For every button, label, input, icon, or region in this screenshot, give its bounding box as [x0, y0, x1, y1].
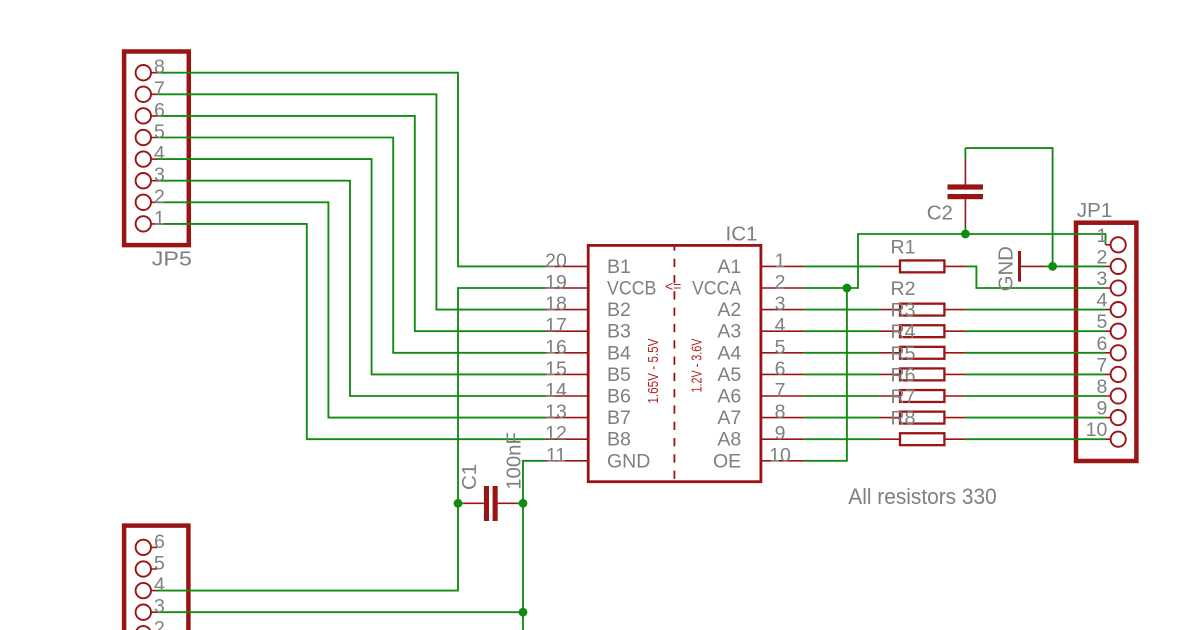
svg-text:100nF: 100nF — [503, 432, 526, 490]
svg-text:13: 13 — [545, 401, 567, 423]
svg-text:R6: R6 — [891, 364, 916, 386]
svg-text:1: 1 — [1096, 225, 1107, 247]
svg-text:16: 16 — [545, 336, 567, 358]
svg-text:A1: A1 — [717, 256, 741, 278]
svg-text:7: 7 — [154, 78, 165, 100]
svg-text:R5: R5 — [891, 343, 916, 365]
svg-text:A8: A8 — [717, 429, 741, 451]
svg-text:12: 12 — [545, 423, 567, 445]
svg-text:4: 4 — [154, 143, 165, 165]
svg-text:3: 3 — [154, 164, 165, 186]
svg-text:A4: A4 — [717, 342, 741, 364]
svg-text:A6: A6 — [717, 386, 741, 408]
svg-text:C2: C2 — [927, 202, 953, 225]
svg-text:<=: <= — [665, 278, 681, 294]
svg-text:18: 18 — [545, 293, 567, 315]
svg-text:5: 5 — [775, 336, 786, 358]
svg-text:6: 6 — [775, 358, 786, 380]
svg-text:A7: A7 — [717, 407, 741, 429]
svg-text:OE: OE — [713, 450, 741, 472]
svg-text:B6: B6 — [607, 386, 631, 408]
svg-text:8: 8 — [1096, 376, 1107, 398]
svg-text:GND: GND — [994, 246, 1017, 291]
svg-text:10: 10 — [769, 444, 791, 466]
svg-text:17: 17 — [545, 315, 567, 337]
svg-text:All resistors 330: All resistors 330 — [848, 484, 996, 509]
svg-text:3: 3 — [154, 596, 165, 618]
svg-text:3: 3 — [775, 293, 786, 315]
svg-text:B8: B8 — [607, 429, 631, 451]
svg-text:2: 2 — [154, 617, 165, 630]
svg-text:VCCA: VCCA — [692, 278, 741, 300]
svg-text:4: 4 — [154, 574, 165, 596]
svg-text:VCCB: VCCB — [607, 278, 656, 300]
svg-text:15: 15 — [545, 358, 567, 380]
svg-text:9: 9 — [775, 423, 786, 445]
svg-text:2: 2 — [775, 272, 786, 294]
svg-text:7: 7 — [775, 380, 786, 402]
svg-text:7: 7 — [1096, 354, 1107, 376]
svg-text:5: 5 — [154, 121, 165, 143]
svg-text:JP1: JP1 — [1077, 199, 1112, 222]
svg-text:A2: A2 — [717, 299, 741, 321]
svg-text:B7: B7 — [607, 407, 631, 429]
svg-text:R1: R1 — [891, 237, 916, 259]
svg-text:B4: B4 — [607, 342, 631, 364]
svg-text:R8: R8 — [891, 408, 916, 430]
svg-text:20: 20 — [545, 250, 567, 272]
svg-text:B3: B3 — [607, 321, 631, 343]
svg-text:GND: GND — [607, 450, 650, 472]
svg-text:11: 11 — [546, 444, 566, 466]
svg-text:B1: B1 — [607, 256, 631, 278]
svg-text:A3: A3 — [717, 321, 741, 343]
svg-text:14: 14 — [545, 380, 567, 402]
svg-text:1.2V - 3.6V: 1.2V - 3.6V — [689, 338, 705, 392]
svg-text:10: 10 — [1086, 419, 1108, 441]
svg-text:1: 1 — [775, 250, 786, 272]
svg-text:IC1: IC1 — [726, 223, 758, 246]
svg-text:8: 8 — [775, 401, 786, 423]
svg-text:A5: A5 — [717, 364, 741, 386]
svg-text:1: 1 — [154, 207, 165, 229]
svg-text:B5: B5 — [607, 364, 631, 386]
svg-text:2: 2 — [154, 186, 165, 208]
svg-text:8: 8 — [154, 56, 165, 78]
svg-text:R4: R4 — [891, 321, 916, 343]
svg-text:5: 5 — [154, 553, 165, 575]
svg-text:9: 9 — [1096, 398, 1107, 420]
svg-text:6: 6 — [154, 531, 165, 553]
svg-text:R3: R3 — [891, 300, 916, 322]
svg-text:2: 2 — [1096, 246, 1107, 268]
svg-text:R7: R7 — [891, 386, 916, 408]
svg-text:R2: R2 — [891, 278, 916, 300]
svg-text:4: 4 — [1096, 290, 1107, 312]
svg-text:4: 4 — [775, 315, 786, 337]
svg-text:JP5: JP5 — [152, 248, 192, 271]
svg-text:3: 3 — [1096, 268, 1107, 290]
svg-text:C1: C1 — [458, 464, 481, 490]
svg-text:6: 6 — [1096, 333, 1107, 355]
svg-text:5: 5 — [1096, 311, 1107, 333]
svg-text:19: 19 — [545, 272, 567, 294]
svg-text:1.65V - 5.5V: 1.65V - 5.5V — [646, 338, 662, 403]
svg-text:6: 6 — [154, 99, 165, 121]
svg-text:B2: B2 — [607, 299, 631, 321]
